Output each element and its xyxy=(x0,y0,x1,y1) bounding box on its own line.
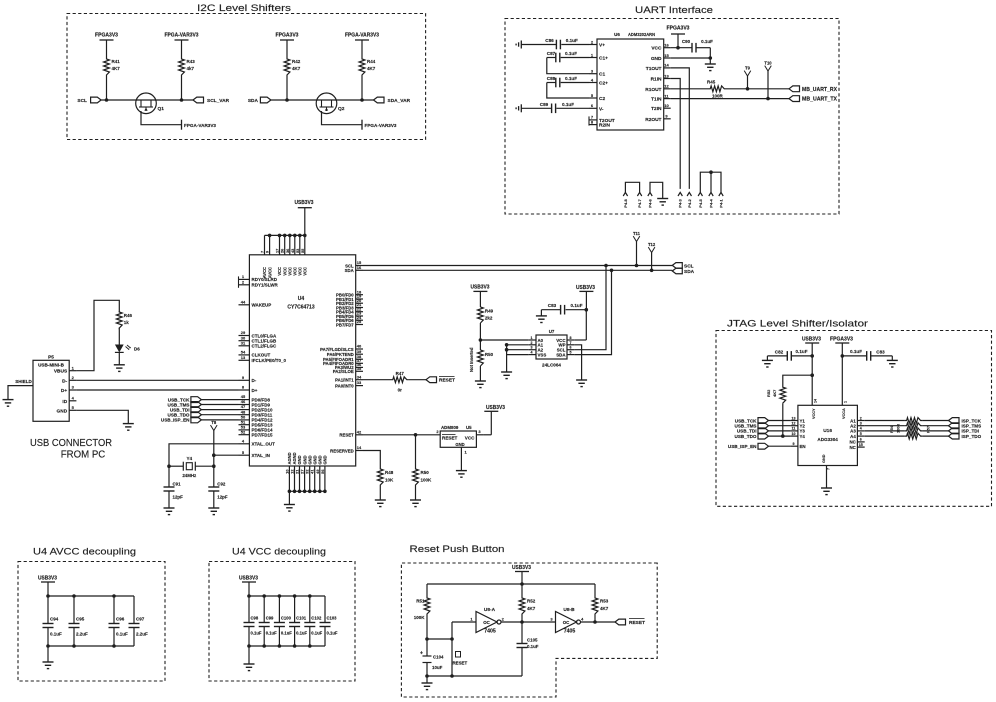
svg-text:EN: EN xyxy=(800,444,806,449)
svg-text:P4-4: P4-4 xyxy=(709,198,714,207)
svg-text:FPGA-VAR3V3: FPGA-VAR3V3 xyxy=(184,123,216,129)
svg-text:C87: C87 xyxy=(547,51,556,56)
pin 25 PB7/FD7 of U4 xyxy=(356,324,363,326)
svg-text:R51: R51 xyxy=(416,599,425,604)
svg-text:4K7: 4K7 xyxy=(292,66,301,71)
svg-text:0r: 0r xyxy=(398,388,403,393)
pin 4 VSS of U7 xyxy=(529,354,536,356)
svg-text:C2: C2 xyxy=(599,96,605,102)
svg-text:0.1uF: 0.1uF xyxy=(296,631,307,636)
pin 54 CLKOUT of U4 xyxy=(239,354,250,356)
svg-text:USB CONNECTOR: USB CONNECTOR xyxy=(30,437,112,449)
svg-text:P4-8: P4-8 xyxy=(623,198,628,207)
svg-text:C100: C100 xyxy=(281,616,292,621)
port P4-1 xyxy=(719,192,723,196)
resistor R47 0r xyxy=(391,377,409,383)
svg-text:0.1uF: 0.1uF xyxy=(327,631,338,636)
svg-text:RESET: RESET xyxy=(453,661,468,666)
port SCL xyxy=(672,263,682,269)
wire R46 to D6 xyxy=(118,328,120,345)
pin 1 C1+ of U6 xyxy=(589,57,597,59)
wire SDA to Q xyxy=(271,99,317,101)
svg-text:0.1uF: 0.1uF xyxy=(281,631,292,636)
svg-text:Q1: Q1 xyxy=(158,106,165,112)
svg-text:R44: R44 xyxy=(367,59,376,64)
svg-text:R46: R46 xyxy=(124,313,133,318)
svg-text:SCL: SCL xyxy=(77,98,87,104)
port SDA xyxy=(672,268,682,274)
wire Q to port SDA_VAR xyxy=(336,99,373,101)
port P4-2 xyxy=(687,192,691,196)
svg-text:C90: C90 xyxy=(682,39,691,44)
pin 23 PB5/FD5 of U4 xyxy=(356,315,363,317)
svg-text:3: 3 xyxy=(531,346,533,350)
wire button to U8-A input xyxy=(452,621,476,623)
svg-text:RESET: RESET xyxy=(439,378,455,384)
svg-text:USB3V3: USB3V3 xyxy=(802,337,821,343)
wire RESET node to R50b xyxy=(415,435,417,468)
pin 27 GND of U4 xyxy=(304,466,306,491)
pin 4 ID of P5 xyxy=(69,400,76,402)
svg-text:VCC: VCC xyxy=(651,46,662,52)
pin 9 AVCC of U4 xyxy=(269,235,271,254)
svg-text:35: 35 xyxy=(357,366,362,371)
wire VBUS to R46 xyxy=(76,300,119,370)
dashed frame VCC decoupling xyxy=(209,562,355,682)
resistor R43 xyxy=(179,56,185,78)
pin 17 VCC of U4 xyxy=(279,235,281,254)
svg-text:4K7: 4K7 xyxy=(600,606,609,611)
connector P5 USB-MINI-B body xyxy=(33,360,69,421)
svg-text:CLKOUT: CLKOUT xyxy=(252,353,271,358)
wire bridge P4-8 P4-7 xyxy=(625,182,639,192)
junction node SCL xyxy=(105,98,109,102)
svg-text:0.1uF: 0.1uF xyxy=(565,51,577,56)
svg-text:14: 14 xyxy=(814,399,818,403)
port ISP_TMS xyxy=(949,423,960,429)
svg-text:FROM PC: FROM PC xyxy=(61,449,106,461)
svg-text:C96: C96 xyxy=(116,617,125,622)
svg-text:T1IN: T1IN xyxy=(651,97,662,103)
svg-text:D6: D6 xyxy=(134,347,140,352)
svg-text:T11: T11 xyxy=(633,231,641,236)
port P4-4 xyxy=(709,192,713,196)
wire R1IN to P4-3 xyxy=(671,79,681,189)
svg-text:0.1uF: 0.1uF xyxy=(566,38,578,43)
svg-text:P4-1: P4-1 xyxy=(719,198,724,207)
wire T1OUT to P4-2 xyxy=(671,68,690,189)
pin 12 AGND of U4 xyxy=(294,466,296,491)
svg-text:5: 5 xyxy=(860,432,862,436)
svg-text:USB_ISP_EN: USB_ISP_EN xyxy=(728,444,757,449)
ground of P4-6 xyxy=(657,198,668,200)
svg-text:24LC064: 24LC064 xyxy=(542,363,561,368)
svg-text:USB3V3: USB3V3 xyxy=(239,576,258,582)
svg-text:PA0/INT0: PA0/INT0 xyxy=(335,383,354,388)
wire SDA pin of U7 to bus xyxy=(574,270,611,354)
svg-text:2k2: 2k2 xyxy=(485,316,493,321)
svg-text:USB3V3: USB3V3 xyxy=(486,405,505,411)
pin 3 D+ of P5 xyxy=(69,389,76,391)
svg-text:UART Interface: UART Interface xyxy=(635,5,713,16)
wire D- from P5 to U4 xyxy=(76,379,238,381)
svg-text:31: 31 xyxy=(241,340,246,345)
svg-text:C105: C105 xyxy=(527,638,538,643)
ground of U16 xyxy=(821,487,832,489)
wire R48 to ground xyxy=(379,486,381,500)
svg-text:0.1uF: 0.1uF xyxy=(50,632,62,637)
svg-text:10: 10 xyxy=(664,103,669,108)
pin 48 PD3/FD11 of U4 xyxy=(239,414,250,416)
wire SCL pin of U7 to bus xyxy=(574,266,606,350)
power tap FPGA-VAR3V3 at gate of Q1 xyxy=(181,120,183,130)
svg-text:7405: 7405 xyxy=(564,629,576,635)
transistor Q2 xyxy=(316,93,337,114)
svg-text:6: 6 xyxy=(860,438,862,442)
svg-text:100K: 100K xyxy=(414,615,426,620)
wire gate of Q1 to FPGA-VAR3V3 tap xyxy=(141,111,182,125)
svg-text:C2+: C2+ xyxy=(599,81,608,87)
wire VCC pin to C90 xyxy=(671,47,692,49)
svg-text:100R: 100R xyxy=(712,94,724,99)
svg-text:6: 6 xyxy=(570,346,572,350)
svg-text:13: 13 xyxy=(792,416,796,420)
svg-text:FPGA-VAR3V3: FPGA-VAR3V3 xyxy=(365,123,397,129)
port ISP_TCK xyxy=(949,418,960,424)
pin 32 GND of U4 xyxy=(309,466,311,491)
svg-text:C102: C102 xyxy=(311,616,322,621)
crystal Y4 24MHz xyxy=(169,465,183,467)
svg-text:C104: C104 xyxy=(433,655,444,660)
wire R49 to R50 xyxy=(479,323,481,350)
pin 6 V- of U6 xyxy=(589,107,597,109)
resistor R53 4K7 xyxy=(592,597,598,615)
svg-text:D+: D+ xyxy=(61,388,67,394)
pin 30 CTL1/FLGB of U4 xyxy=(239,340,250,342)
svg-text:U4 VCC decoupling: U4 VCC decoupling xyxy=(232,547,326,558)
svg-text:T9: T9 xyxy=(745,66,751,71)
pin 10 T2IN of U6 xyxy=(664,107,671,109)
svg-text:15: 15 xyxy=(859,443,863,447)
port RESET output xyxy=(426,377,437,383)
pin 14 RESERVED of U4 xyxy=(356,450,363,452)
svg-text:USB3V3: USB3V3 xyxy=(38,576,57,582)
pin 36 VCC of U4 xyxy=(289,235,291,254)
svg-text:24MHz: 24MHz xyxy=(182,473,197,478)
svg-text:VCCA: VCCA xyxy=(842,408,846,419)
pin 15 SCL of U4 xyxy=(356,265,363,267)
resistor R42 xyxy=(284,56,290,78)
bracket tying U4 pins 1 and 2 xyxy=(238,276,240,287)
wire GND of P5 to ground xyxy=(76,410,128,423)
svg-text:7: 7 xyxy=(570,341,572,345)
port RESET push button output xyxy=(615,619,626,625)
pin 18 PB0/FD0 of U4 xyxy=(356,294,363,296)
wire power bus above U4 xyxy=(265,234,305,236)
ground of U7 VSS xyxy=(501,371,512,373)
svg-text:U8-B: U8-B xyxy=(563,607,575,613)
wire VCC of U7 xyxy=(574,339,586,341)
svg-text:VCC: VCC xyxy=(465,435,475,440)
pin 24 PB6/FD6 of U4 xyxy=(356,319,363,321)
ground for U6 xyxy=(705,63,716,65)
pin 2 A1 of U7 xyxy=(529,344,536,346)
capacitor C101 0.1uF xyxy=(294,596,296,623)
svg-text:IFCLK/PE0/T0_0: IFCLK/PE0/T0_0 xyxy=(252,358,287,363)
svg-text:12pF: 12pF xyxy=(173,495,184,500)
pin 1 VBUS of P5 xyxy=(69,370,76,372)
svg-text:11: 11 xyxy=(792,427,796,431)
capacitor C103 0.1uF xyxy=(324,596,326,623)
svg-text:2.2uF: 2.2uF xyxy=(136,632,148,637)
capacitor C100 0.1uF xyxy=(278,596,280,623)
pin 2 RDY1/SLWR of U4 xyxy=(239,284,250,286)
svg-text:U6: U6 xyxy=(614,32,620,37)
wire VCC rail to ground xyxy=(248,646,250,664)
pin 2 V+ of U6 xyxy=(589,44,597,46)
pin 12 R1OUT of U6 xyxy=(664,88,671,90)
svg-text:A4: A4 xyxy=(850,434,856,439)
wire R53 joins output xyxy=(594,584,596,597)
svg-text:10: 10 xyxy=(792,432,796,436)
junction node SCL_VAR xyxy=(180,98,184,102)
wire P4-6 to ground xyxy=(650,182,663,198)
wire R1OUT to R45 xyxy=(671,88,709,90)
capacitor C82 0.1uF xyxy=(767,355,787,357)
resistor R46 1k xyxy=(116,312,122,328)
IC U4 CY7C64713 body xyxy=(249,255,355,466)
wire ground bridge under U4 xyxy=(289,490,325,492)
pin 4 C2+ of U6 xyxy=(589,82,597,84)
pin 45 PD0/FD8 of U4 xyxy=(239,399,250,401)
wire WP to ground xyxy=(574,345,581,380)
capacitor C95 2.2uF xyxy=(73,596,75,624)
svg-text:R45: R45 xyxy=(707,80,716,85)
svg-text:SHIELD: SHIELD xyxy=(15,379,32,384)
IC U5 ADM809 body xyxy=(440,431,476,447)
capacitor C83 0.1uF at U7 xyxy=(541,309,560,311)
svg-text:ADM3202ARN: ADM3202ARN xyxy=(628,32,655,37)
svg-text:0.1uF: 0.1uF xyxy=(565,76,577,81)
svg-text:FPGA3V3: FPGA3V3 xyxy=(95,33,118,39)
wire SCL bus from U4 to port xyxy=(363,265,672,267)
resistor R50 not inserted xyxy=(478,350,484,366)
LED D6 xyxy=(115,345,124,353)
ground of C91 xyxy=(164,507,175,509)
pin 7 WP of U7 xyxy=(567,344,574,346)
svg-text:USB3V3: USB3V3 xyxy=(295,200,314,206)
ground of R50 xyxy=(475,380,486,382)
capacitor C92 12pF xyxy=(213,466,215,487)
port ISP_TDI xyxy=(949,428,960,434)
svg-text:P5: P5 xyxy=(48,355,54,361)
svg-text:14: 14 xyxy=(357,445,362,450)
pin 37 PA4/FIFOADR0 of U4 xyxy=(356,362,363,364)
resistor R57 on ISP_TDO line xyxy=(865,435,905,437)
svg-text:T1OUT: T1OUT xyxy=(646,66,662,72)
wire Q to port SCL_VAR xyxy=(156,99,193,101)
svg-text:CY7C64713: CY7C64713 xyxy=(287,305,314,311)
ground of U5 xyxy=(456,470,467,472)
ground of C83 xyxy=(891,356,893,361)
svg-text:PA1/INT1: PA1/INT1 xyxy=(335,378,354,383)
pin 34 PA1/INT1 of U4 xyxy=(356,379,363,381)
pin 13 R1IN of U6 xyxy=(664,78,671,80)
pin 3 VCC of U5 xyxy=(476,434,483,436)
pin 55 VCC of U4 xyxy=(304,235,306,254)
wire GND pin to ground xyxy=(671,57,711,59)
svg-text:R57: R57 xyxy=(927,426,931,433)
wire U8-A out to U8-B in xyxy=(501,621,556,623)
wire RESERVED to R48 xyxy=(363,451,380,469)
svg-text:R42: R42 xyxy=(292,59,301,64)
svg-text:FPGA-VAR3V3: FPGA-VAR3V3 xyxy=(165,33,199,39)
pin 10 Y4 of U16 xyxy=(791,435,798,437)
wire PA1 to R47 xyxy=(363,379,391,381)
capacitor C96 0.1uF xyxy=(113,596,115,624)
port SDA_VAR xyxy=(374,97,385,103)
svg-text:R52: R52 xyxy=(527,599,536,604)
pin 6 SCL of U7 xyxy=(567,349,574,351)
capacitor C98 0.1uF xyxy=(248,596,250,623)
wire R47 to RESET port xyxy=(409,379,426,381)
svg-text:13: 13 xyxy=(664,73,669,78)
ground of VCC caps xyxy=(244,663,255,665)
svg-text:33: 33 xyxy=(357,380,362,385)
pin 51 PD5/FD13 of U4 xyxy=(239,424,250,426)
svg-text:Reset Push Button: Reset Push Button xyxy=(410,544,505,555)
power tap FPGA-VAR3V3 at gate of Q2 xyxy=(361,120,363,130)
wire C104 to bottom rail xyxy=(426,663,428,677)
svg-text:ISP_TDO: ISP_TDO xyxy=(962,434,982,439)
capacitor C87 xyxy=(561,57,589,59)
pin 41 GND of U4 xyxy=(314,466,316,491)
pin 5 A4 of U16 xyxy=(857,435,864,437)
pin 5 XTAL_IN of U4 xyxy=(239,454,250,456)
resistor R51 100K xyxy=(424,597,430,615)
op-amp U6 ADM3202ARN body xyxy=(597,39,664,130)
pin 47 PD2/FD10 of U4 xyxy=(239,409,250,411)
svg-text:FPGA-VAR3V3: FPGA-VAR3V3 xyxy=(345,33,379,39)
wire reset bottom rail xyxy=(427,675,522,677)
svg-text:V+: V+ xyxy=(599,43,605,49)
svg-text:R50: R50 xyxy=(421,470,430,475)
ground under U4 xyxy=(284,504,295,506)
wire SDA bus from U4 to port xyxy=(363,269,672,271)
resistor R54 on ISP_TCK line xyxy=(865,420,905,422)
svg-text:RESET: RESET xyxy=(629,620,645,626)
port P4-7 xyxy=(637,192,641,196)
capacitor C90 xyxy=(691,43,693,53)
wire A0 to R49 R50 node xyxy=(480,339,528,341)
svg-text:FPGA3V3: FPGA3V3 xyxy=(276,33,299,39)
ground of C82 xyxy=(766,356,768,361)
pin 46 PD1/FD9 of U4 xyxy=(239,404,250,406)
capacitor C105 0.1uF xyxy=(521,622,523,644)
svg-text:C86: C86 xyxy=(545,38,554,43)
svg-text:10K: 10K xyxy=(385,478,394,483)
svg-text:34: 34 xyxy=(357,374,362,379)
ground of P5 xyxy=(123,423,134,425)
pin 1 A0 of U7 xyxy=(529,339,536,341)
svg-text:USB3V3: USB3V3 xyxy=(576,285,595,291)
pin 15 NC of U16 xyxy=(857,446,864,448)
svg-text:ID: ID xyxy=(62,399,67,405)
pin 5 SDA of U7 xyxy=(567,354,574,356)
svg-text:C83: C83 xyxy=(876,349,885,354)
capacitor C88 xyxy=(561,82,589,84)
wire C92 to ground xyxy=(213,491,215,508)
wire reset top rail xyxy=(427,583,595,585)
test point T9 xyxy=(747,76,749,89)
IC U7 24LC064 body xyxy=(536,335,567,359)
svg-text:100K: 100K xyxy=(421,478,433,483)
IC U16 ADG3304 body xyxy=(798,405,858,465)
pin 1 GND of U5 xyxy=(460,447,462,470)
svg-text:14: 14 xyxy=(664,63,669,68)
svg-text:16: 16 xyxy=(357,265,362,270)
wire C87 to C1 xyxy=(547,58,589,74)
wire R52 to node xyxy=(521,584,523,597)
svg-text:C103: C103 xyxy=(327,616,338,621)
svg-text:12: 12 xyxy=(792,422,796,426)
svg-text:RESET: RESET xyxy=(442,435,458,440)
svg-text:12pF: 12pF xyxy=(217,495,228,500)
svg-text:C91: C91 xyxy=(173,482,182,487)
svg-text:GND: GND xyxy=(651,56,662,62)
resistor R48 10K xyxy=(377,468,383,486)
pin 14 T1OUT of U6 xyxy=(664,67,671,69)
svg-text:T2IN: T2IN xyxy=(651,106,662,112)
svg-text:C1: C1 xyxy=(599,72,605,78)
svg-text:MB_UART_TX: MB_UART_TX xyxy=(802,97,838,103)
svg-text:ADG3304: ADG3304 xyxy=(817,437,838,442)
power USB3V3 for U5 xyxy=(484,434,492,436)
svg-text:P4-5: P4-5 xyxy=(698,198,703,207)
svg-text:9: 9 xyxy=(793,442,795,446)
pin 6 NC of U16 xyxy=(857,441,864,443)
svg-text:C89: C89 xyxy=(540,102,549,107)
svg-text:P4-7: P4-7 xyxy=(637,198,642,207)
wire C91 to ground xyxy=(168,491,170,508)
svg-text:R52: R52 xyxy=(766,389,771,397)
pin 22 PB4/FD4 of U4 xyxy=(356,311,363,313)
wire XTAL_OUT to crystal xyxy=(169,444,239,466)
pin 7 T2OUT of U6 xyxy=(589,119,597,121)
resistor R52 4K7 xyxy=(780,387,786,404)
svg-text:5: 5 xyxy=(570,351,572,355)
wire gate of Q2 to FPGA-VAR3V3 tap xyxy=(322,111,363,125)
svg-text:USB3V3: USB3V3 xyxy=(512,565,531,571)
pin 44 WAKEUP of U4 xyxy=(239,304,250,306)
svg-text:2.2uF: 2.2uF xyxy=(76,632,88,637)
svg-text:OC: OC xyxy=(563,620,570,625)
pin 15 GND of U6 xyxy=(664,57,671,59)
port P4-5 xyxy=(698,192,702,196)
svg-text:R53: R53 xyxy=(600,599,609,604)
pin 33 PA0/INT0 of U4 xyxy=(356,385,363,387)
svg-text:SDA: SDA xyxy=(345,268,354,273)
pin 8 VCC of U7 xyxy=(567,339,574,341)
svg-text:SDA: SDA xyxy=(248,98,259,104)
svg-text:0.1uF: 0.1uF xyxy=(701,39,713,44)
svg-text:3: 3 xyxy=(860,422,862,426)
ground of C92 xyxy=(208,507,219,509)
svg-text:USB-MINI-B: USB-MINI-B xyxy=(38,363,64,368)
wire R52 pull branch xyxy=(810,373,814,377)
junction node SDA xyxy=(285,98,289,102)
svg-text:C92: C92 xyxy=(217,482,226,487)
